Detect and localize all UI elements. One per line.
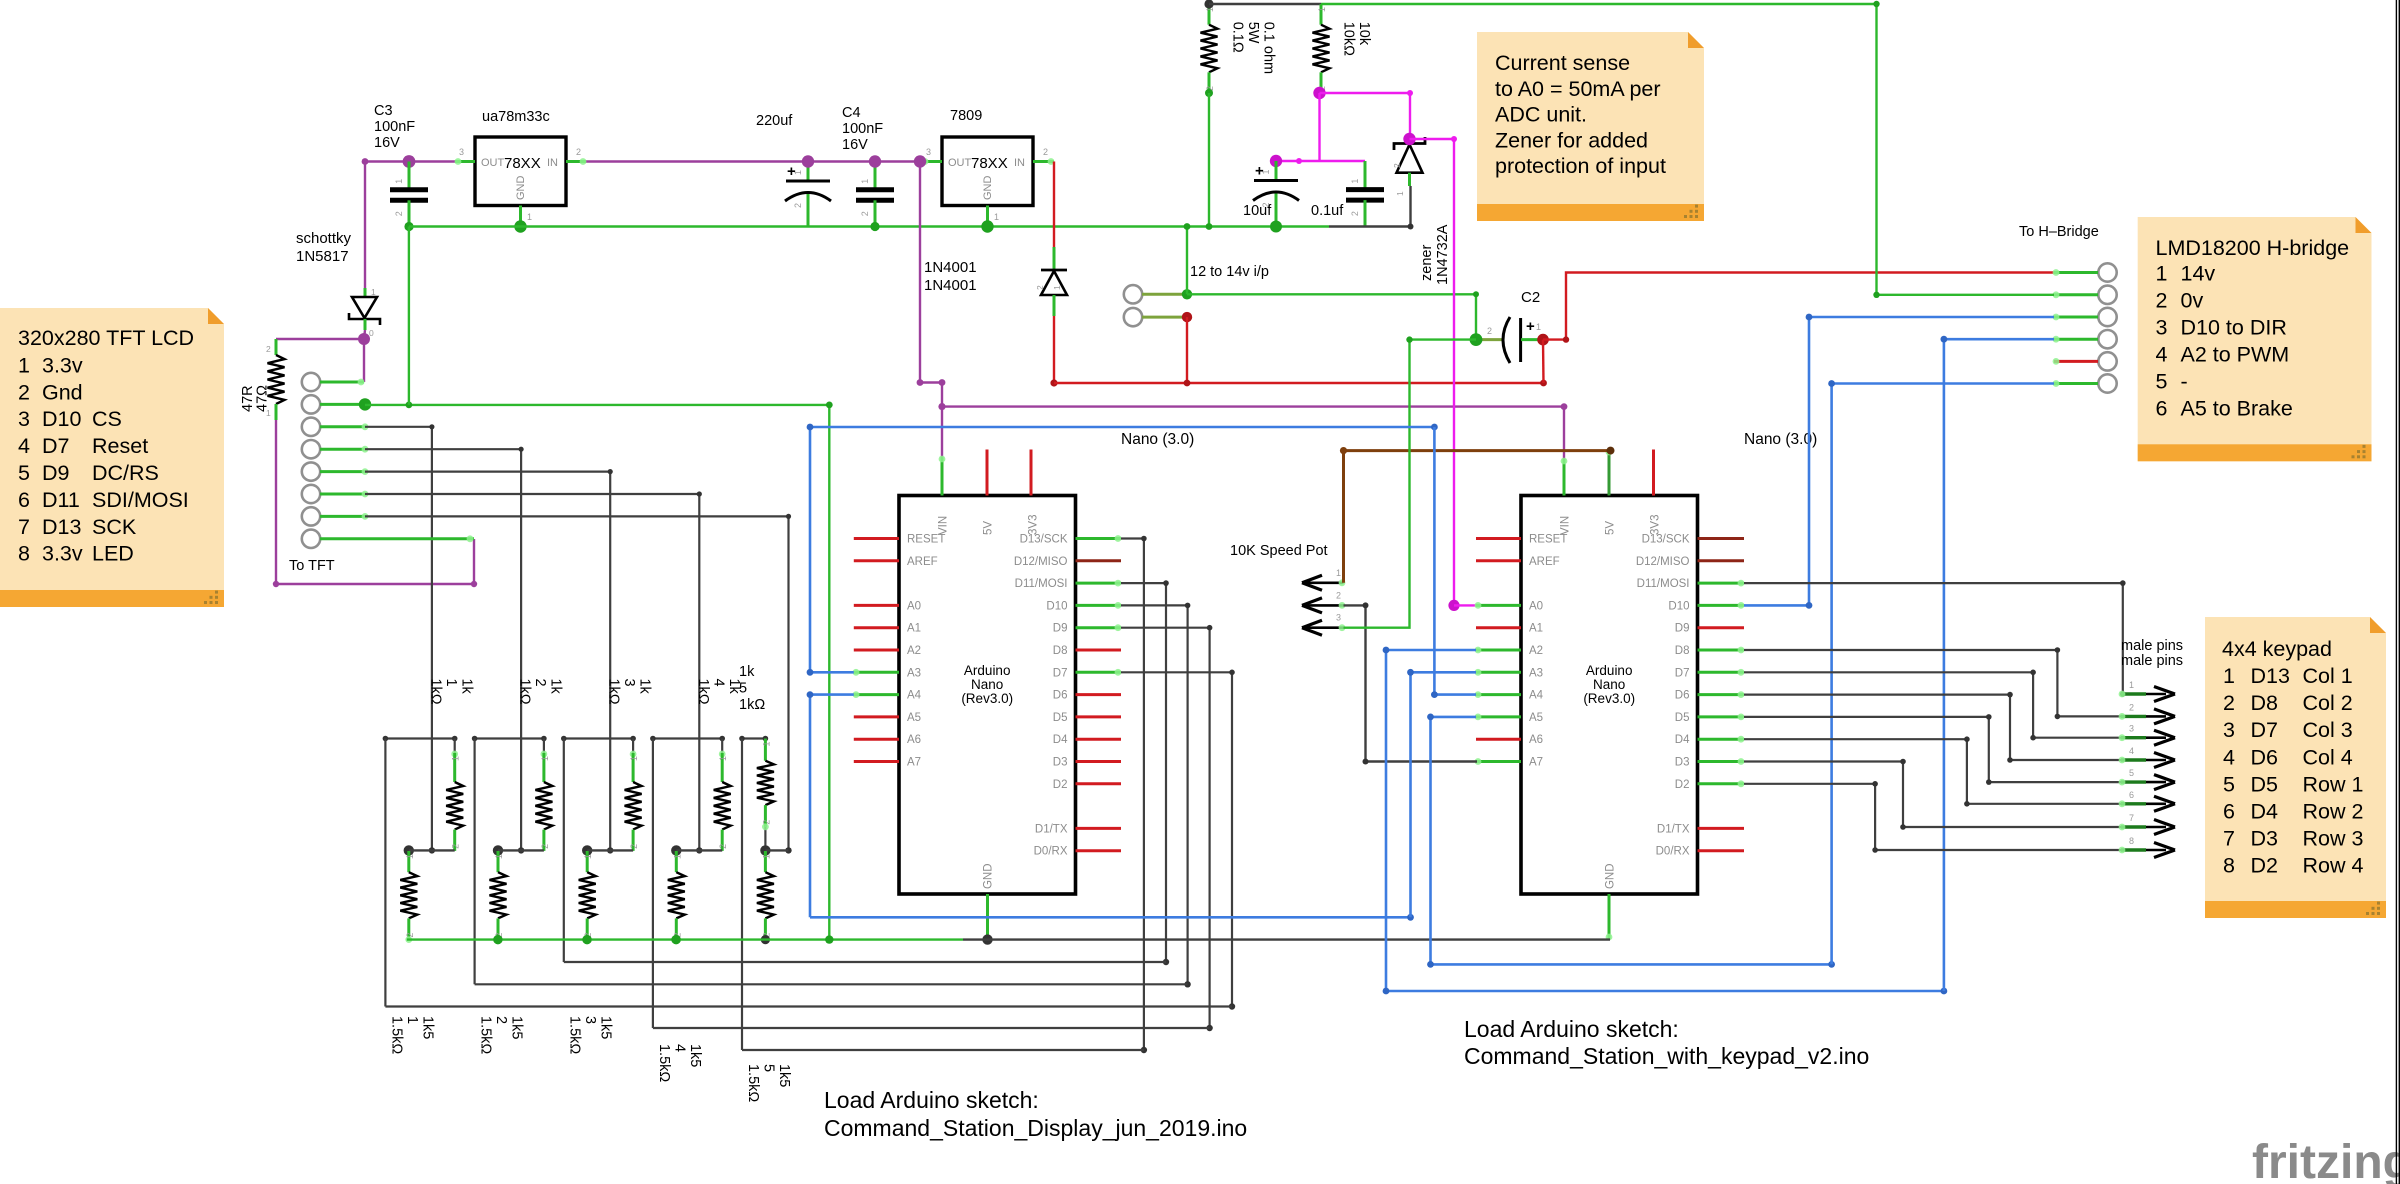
svg-text:3: 3 bbox=[621, 679, 637, 687]
svg-text:A4: A4 bbox=[1529, 690, 1544, 702]
wire nano1 D11 to divider bbox=[1121, 580, 1169, 965]
wire nano1 left stub r9 bbox=[854, 738, 899, 741]
svg-text:D5: D5 bbox=[1053, 712, 1068, 724]
wire green bus drop bbox=[408, 227, 410, 405]
wire magenta caps link bbox=[1276, 158, 1365, 164]
svg-text:D13: D13 bbox=[2251, 664, 2290, 688]
wire red diode to bus bbox=[1050, 316, 1057, 387]
resistor R7 0.1 ohm bbox=[1201, 4, 1218, 93]
svg-text:1: 1 bbox=[1052, 285, 1062, 290]
svg-text:D11: D11 bbox=[42, 488, 80, 512]
label 1k 5 bbox=[739, 664, 765, 713]
wire blue to nano2 A3 bbox=[1407, 669, 1476, 917]
wire divider run 4 bbox=[653, 1027, 1210, 1029]
svg-text:7: 7 bbox=[2223, 827, 2235, 851]
wire TFT pin4 bbox=[320, 446, 524, 854]
svg-text:0.1uf: 0.1uf bbox=[1311, 203, 1344, 219]
svg-text:1: 1 bbox=[793, 170, 803, 175]
svg-text:2: 2 bbox=[860, 211, 870, 216]
svg-text:100nF: 100nF bbox=[374, 119, 415, 135]
svg-text:D10: D10 bbox=[42, 407, 81, 431]
wire divider5 left drop bbox=[741, 739, 743, 1051]
svg-text:5: 5 bbox=[760, 1064, 776, 1072]
resistor R8 10k bbox=[1313, 4, 1330, 93]
svg-text:zener: zener bbox=[1419, 245, 1435, 281]
node gnd bus junction bbox=[671, 935, 680, 944]
keypad male pin 6 bbox=[2119, 790, 2175, 812]
wire divider run 2 bbox=[564, 961, 1166, 963]
svg-text:VIN: VIN bbox=[1560, 516, 1572, 535]
wire blue Hbridge pin6 riser bbox=[1828, 380, 2054, 964]
wire blue nano2 A2 drop bbox=[1383, 647, 1476, 991]
svg-text:1: 1 bbox=[527, 212, 532, 222]
svg-text:OUT: OUT bbox=[481, 157, 505, 169]
wire divider2 left drop bbox=[474, 739, 476, 985]
svg-text:D4: D4 bbox=[1675, 734, 1690, 746]
wire nano2 right stub r9 bbox=[1698, 736, 1745, 743]
svg-text:Command_Station_Display_jun_20: Command_Station_Display_jun_2019.ino bbox=[824, 1115, 1247, 1141]
svg-text:3: 3 bbox=[2156, 315, 2168, 339]
wire TFT pin5 bbox=[320, 468, 613, 853]
svg-text:(Rev3.0): (Rev3.0) bbox=[1583, 691, 1635, 706]
wire nano1 right stub r2 bbox=[1076, 580, 1122, 587]
svg-text:10K Speed Pot: 10K Speed Pot bbox=[1230, 543, 1328, 559]
svg-text:4: 4 bbox=[18, 434, 30, 458]
wire purple VIN drop nano1 bbox=[917, 162, 946, 407]
svg-text:1: 1 bbox=[1317, 7, 1327, 12]
svg-text:1N5817: 1N5817 bbox=[296, 248, 349, 265]
svg-text:-: - bbox=[2181, 369, 2188, 393]
svg-text:1k5: 1k5 bbox=[776, 1064, 792, 1087]
svg-text:D9: D9 bbox=[42, 461, 69, 485]
svg-text:1: 1 bbox=[451, 756, 461, 761]
svg-text:1: 1 bbox=[761, 741, 771, 746]
wire TFT pin6 bbox=[320, 491, 703, 854]
capacitor C6 10uf bbox=[1253, 161, 1299, 227]
svg-text:3: 3 bbox=[2129, 724, 2134, 734]
wire purple 3.3V bus bbox=[586, 160, 920, 162]
svg-text:10uf: 10uf bbox=[1243, 203, 1272, 219]
svg-text:1: 1 bbox=[672, 854, 682, 859]
svg-text:to A0 = 50mA per: to A0 = 50mA per bbox=[1495, 77, 1661, 101]
wire nano1 left stub r1 bbox=[854, 559, 899, 562]
wire nano2 right stub r7 bbox=[1698, 691, 1745, 698]
svg-text:5: 5 bbox=[2223, 772, 2235, 796]
svg-text:Arduino: Arduino bbox=[1586, 663, 1633, 678]
svg-text:1: 1 bbox=[443, 679, 459, 687]
node 220uf top bbox=[802, 155, 814, 167]
svg-text:2: 2 bbox=[2223, 691, 2235, 715]
keypad male pin 3 bbox=[2119, 724, 2175, 746]
wire nano2 5V stub bbox=[1606, 449, 1613, 496]
svg-text:D3: D3 bbox=[1675, 757, 1690, 769]
wire nano2 VIN stub bbox=[1561, 458, 1568, 496]
wire input pin2 bbox=[1142, 316, 1187, 319]
svg-text:5W: 5W bbox=[1245, 22, 1261, 44]
label 47R bbox=[240, 385, 271, 412]
svg-text:fritzing: fritzing bbox=[2252, 1136, 2400, 1184]
wire divider run 3 bbox=[475, 983, 1188, 985]
svg-text:2: 2 bbox=[1392, 163, 1402, 168]
note current sense bbox=[1477, 32, 1704, 221]
wire nano1 right stub r9 bbox=[1076, 738, 1122, 741]
svg-text:protection of input: protection of input bbox=[1495, 154, 1666, 178]
svg-text:Gnd: Gnd bbox=[42, 380, 83, 404]
svg-text:320x280 TFT LCD: 320x280 TFT LCD bbox=[18, 326, 194, 350]
svg-text:1: 1 bbox=[540, 756, 550, 761]
svg-text:A1: A1 bbox=[1529, 623, 1543, 635]
label Nano (3.0) first bbox=[1121, 431, 1194, 448]
label Nano (3.0) second bbox=[1744, 431, 1817, 448]
node C2 neg bbox=[1470, 333, 1483, 346]
label 1k5 5 bbox=[745, 1064, 792, 1102]
wire magenta to A0 stub bbox=[1454, 604, 1477, 606]
svg-text:4: 4 bbox=[671, 1044, 687, 1052]
node nano1 gnd junction bbox=[982, 934, 992, 944]
label 0.1 ohm bbox=[1230, 22, 1277, 74]
wire nano1 left stub r10 bbox=[854, 760, 899, 763]
svg-text:IN: IN bbox=[1014, 157, 1025, 169]
label ua78m33c bbox=[482, 109, 550, 125]
svg-text:1k: 1k bbox=[548, 679, 564, 695]
wire Hbridge stub 1 bbox=[2053, 269, 2098, 276]
wire nano2 right stub r8 bbox=[1698, 714, 1745, 721]
svg-text:Col 3: Col 3 bbox=[2303, 718, 2353, 742]
svg-text:1kΩ: 1kΩ bbox=[427, 679, 443, 705]
label 1k5 3 bbox=[567, 1016, 614, 1054]
svg-text:1: 1 bbox=[404, 1016, 420, 1024]
wire nano2 GND bbox=[1606, 894, 1613, 940]
svg-text:1: 1 bbox=[1336, 568, 1341, 578]
svg-text:5: 5 bbox=[739, 681, 747, 697]
node input pin2 junction bbox=[1182, 312, 1192, 322]
resistor 1k 2 bbox=[535, 753, 552, 851]
svg-text:1: 1 bbox=[2129, 680, 2134, 690]
svg-text:D7: D7 bbox=[1675, 667, 1690, 679]
svg-text:D3: D3 bbox=[2251, 827, 2279, 851]
svg-text:2: 2 bbox=[1487, 326, 1492, 336]
node 10uf top bbox=[1270, 155, 1282, 167]
svg-text:GND: GND bbox=[983, 863, 995, 889]
svg-text:3.3v: 3.3v bbox=[42, 542, 83, 566]
wire divider4 hook bbox=[650, 736, 725, 742]
svg-text:A5 to Brake: A5 to Brake bbox=[2181, 396, 2293, 420]
svg-text:Col 4: Col 4 bbox=[2303, 745, 2353, 769]
svg-text:8: 8 bbox=[2129, 836, 2134, 846]
wire input pin1 bbox=[1142, 293, 1187, 296]
label 1k5 2 bbox=[478, 1016, 525, 1054]
wire blue to nano2 A4 bbox=[1431, 427, 1476, 698]
svg-text:C3: C3 bbox=[374, 103, 393, 119]
label 10K Speed Pot bbox=[1230, 543, 1328, 559]
wire purple nano2 VIN bbox=[1563, 407, 1565, 459]
node U2 out junction bbox=[914, 155, 926, 167]
wire blue nano1 A3 bbox=[807, 427, 854, 676]
capacitor C3 bbox=[390, 162, 428, 227]
svg-text:0.1 ohm: 0.1 ohm bbox=[1261, 22, 1277, 74]
wire green bottom gnd bus bbox=[407, 938, 963, 940]
label 220uf bbox=[756, 113, 793, 129]
wire nano1 D10 to divider bbox=[1121, 603, 1191, 988]
svg-text:D5: D5 bbox=[2251, 772, 2279, 796]
svg-text:1k: 1k bbox=[739, 664, 755, 680]
svg-text:1kΩ: 1kΩ bbox=[739, 697, 765, 713]
label 1k5 1 bbox=[388, 1016, 435, 1054]
svg-text:1: 1 bbox=[761, 854, 771, 859]
svg-text:D6: D6 bbox=[1675, 690, 1690, 702]
wire blue pwm run bbox=[1383, 988, 1948, 995]
svg-text:1: 1 bbox=[494, 854, 504, 859]
wire black zener gnd bbox=[1329, 186, 1414, 230]
svg-text:1k: 1k bbox=[637, 679, 653, 695]
wire nano1 D7 to divider bbox=[1121, 670, 1235, 1010]
svg-text:D1/TX: D1/TX bbox=[1657, 823, 1690, 835]
wire nano2 right stub r5 bbox=[1698, 647, 1745, 654]
wire divider2 1k tail bbox=[541, 739, 548, 758]
svg-text:3: 3 bbox=[2223, 718, 2235, 742]
wire nano1 left stub r5 bbox=[854, 649, 899, 652]
svg-text:CS: CS bbox=[92, 407, 122, 431]
voltage regulator U1 ua78m33c bbox=[455, 137, 587, 227]
svg-text:6: 6 bbox=[2156, 396, 2168, 420]
svg-text:1: 1 bbox=[1350, 179, 1360, 184]
keypad male pin 4 bbox=[2119, 746, 2175, 768]
wire magenta 10k down bbox=[1318, 93, 1320, 161]
svg-text:Load Arduino sketch:: Load Arduino sketch: bbox=[824, 1087, 1039, 1113]
wire blue Hbridge pin4 riser bbox=[1941, 336, 2055, 991]
pot pin 2 arrow bbox=[1302, 590, 1345, 613]
wire purple to schottky bbox=[364, 162, 366, 289]
svg-text:0.1Ω: 0.1Ω bbox=[1230, 22, 1246, 53]
wire purple 47R down bbox=[273, 420, 477, 587]
svg-text:Row 1: Row 1 bbox=[2303, 772, 2364, 796]
svg-text:6: 6 bbox=[2129, 790, 2134, 800]
wire nano2 keypad 8 bbox=[1744, 781, 2121, 853]
label fritzing watermark bbox=[2252, 1136, 2400, 1184]
wire nano1 5V stub bbox=[986, 450, 989, 496]
wire Hbridge stub 5 bbox=[2053, 358, 2098, 365]
svg-text:1: 1 bbox=[1536, 322, 1541, 332]
svg-text:16V: 16V bbox=[374, 135, 400, 151]
svg-text:5: 5 bbox=[2156, 369, 2168, 393]
wire nano2 right stub r2 bbox=[1698, 580, 1745, 587]
svg-text:1N4001: 1N4001 bbox=[924, 259, 977, 276]
label load sketch 2 bbox=[1464, 1016, 1869, 1069]
svg-text:10k: 10k bbox=[1356, 22, 1372, 46]
svg-text:Nano: Nano bbox=[971, 677, 1003, 692]
svg-text:1k5: 1k5 bbox=[509, 1016, 525, 1039]
wire Hbridge stub 4 bbox=[2053, 336, 2098, 343]
capacitor C2 bbox=[1476, 317, 1543, 363]
node purple nano junction bbox=[938, 403, 945, 410]
svg-text:3V3: 3V3 bbox=[1028, 515, 1040, 535]
wire purple node to TFT pin1 bbox=[363, 339, 365, 382]
svg-text:1: 1 bbox=[718, 756, 728, 761]
svg-text:A5: A5 bbox=[1529, 712, 1543, 724]
label male pins bbox=[2121, 638, 2183, 669]
svg-text:AREF: AREF bbox=[907, 556, 938, 568]
svg-text:2: 2 bbox=[2129, 702, 2134, 712]
wire green gnd rail mid bbox=[365, 402, 829, 409]
diode D1 schottky 1N5817 bbox=[349, 287, 380, 338]
svg-text:(Rev3.0): (Rev3.0) bbox=[961, 691, 1013, 706]
wire blue nano2 A5 drop bbox=[1427, 714, 1476, 965]
wire nano2 right stub r11 bbox=[1698, 780, 1745, 787]
wire green mid rail to bottom bus bbox=[826, 402, 833, 940]
wire Hbridge stub 6 bbox=[2053, 380, 2098, 387]
wire divider1 left drop bbox=[384, 739, 386, 1007]
node gnd bus riser junction bbox=[825, 935, 833, 943]
svg-text:D10: D10 bbox=[1668, 600, 1689, 612]
label 1k 2 bbox=[517, 679, 564, 705]
svg-text:D10 to DIR: D10 to DIR bbox=[2181, 315, 2287, 339]
wire TFT pin3 bbox=[320, 423, 435, 853]
wire green input to C2 bbox=[1187, 291, 1479, 339]
node divider4 mid bbox=[671, 845, 681, 855]
node divider3 gnd bbox=[583, 935, 592, 944]
wire divider3 left drop bbox=[563, 739, 565, 963]
svg-text:D12/MISO: D12/MISO bbox=[1014, 556, 1068, 568]
svg-text:7: 7 bbox=[18, 515, 30, 539]
svg-text:A1: A1 bbox=[907, 623, 921, 635]
wire black pot wiper to A7 bbox=[1344, 602, 1478, 764]
label 1k 3 bbox=[606, 679, 653, 705]
svg-text:D2: D2 bbox=[2251, 854, 2278, 878]
svg-text:Current sense: Current sense bbox=[1495, 51, 1630, 75]
svg-text:7809: 7809 bbox=[950, 108, 982, 124]
svg-text:6: 6 bbox=[18, 488, 30, 512]
wire purple nano1 VIN bbox=[941, 407, 943, 457]
svg-text:2: 2 bbox=[793, 203, 803, 208]
svg-text:220uf: 220uf bbox=[756, 113, 793, 129]
keypad male pin 5 bbox=[2119, 768, 2175, 790]
svg-text:2: 2 bbox=[629, 844, 639, 849]
svg-text:10kΩ: 10kΩ bbox=[1341, 22, 1357, 56]
node U1 gnd junction bbox=[514, 220, 526, 232]
wire red C2 drop bbox=[1542, 340, 1545, 383]
svg-text:1: 1 bbox=[1261, 169, 1271, 174]
wire nano2 left stub r7 bbox=[1475, 691, 1521, 698]
svg-text:1: 1 bbox=[994, 212, 999, 222]
node divider1 mid bbox=[404, 845, 414, 855]
wire purple OUT to C3 bbox=[365, 160, 455, 162]
wire TFT pin8 LED bbox=[320, 535, 474, 542]
node 0.1ohm bottom bbox=[1205, 89, 1213, 97]
svg-text:0: 0 bbox=[369, 328, 374, 338]
svg-text:4: 4 bbox=[2223, 745, 2235, 769]
wire divider3 1k tail bbox=[630, 739, 637, 758]
wire divider1 1k tail bbox=[451, 739, 458, 758]
node C3 gnd junction bbox=[404, 222, 413, 231]
label 10uf bbox=[1243, 203, 1272, 219]
node A0 magenta junction bbox=[1448, 600, 1459, 611]
wire nano1 right stub r14 bbox=[1076, 849, 1122, 852]
svg-text:1: 1 bbox=[405, 854, 415, 859]
wire divider3 mid link bbox=[587, 849, 633, 851]
svg-text:D4: D4 bbox=[2251, 800, 2279, 824]
wire nano2 left stub r9 bbox=[1476, 738, 1521, 741]
wire nano2 right stub r10 bbox=[1698, 758, 1745, 765]
svg-text:5: 5 bbox=[2129, 768, 2134, 778]
node divider2 gnd bbox=[493, 935, 502, 944]
svg-text:Col 2: Col 2 bbox=[2303, 691, 2353, 715]
svg-text:D6: D6 bbox=[1053, 690, 1068, 702]
svg-text:+: + bbox=[1526, 318, 1535, 335]
svg-text:Reset: Reset bbox=[92, 434, 148, 458]
wire nano2 right stub r4 bbox=[1698, 626, 1745, 629]
wire Hbridge stub 3 bbox=[2053, 314, 2098, 321]
svg-text:Command_Station_with_keypad_v2: Command_Station_with_keypad_v2.ino bbox=[1464, 1043, 1869, 1069]
svg-text:5V: 5V bbox=[983, 521, 995, 535]
svg-text:D3: D3 bbox=[1053, 757, 1068, 769]
svg-text:5: 5 bbox=[18, 461, 30, 485]
wire nano1 VIN stub bbox=[939, 456, 946, 496]
svg-text:2: 2 bbox=[718, 844, 728, 849]
node schottky junction bbox=[358, 333, 370, 345]
svg-text:4x4 keypad: 4x4 keypad bbox=[2222, 637, 2332, 661]
label 1k 1 bbox=[427, 679, 474, 705]
svg-text:Col 1: Col 1 bbox=[2303, 664, 2353, 688]
svg-text:D8: D8 bbox=[1053, 645, 1068, 657]
svg-text:schottky: schottky bbox=[296, 230, 352, 247]
svg-text:D2: D2 bbox=[1053, 779, 1068, 791]
svg-text:3: 3 bbox=[459, 147, 464, 157]
resistor 1k 5 bbox=[757, 739, 774, 827]
wire nano2 left stub r8 bbox=[1475, 714, 1521, 721]
svg-text:A0: A0 bbox=[907, 600, 921, 612]
wire nano2 right stub r0 bbox=[1698, 537, 1745, 540]
keypad male pin 7 bbox=[2119, 813, 2175, 835]
svg-text:1kΩ: 1kΩ bbox=[695, 679, 711, 705]
wire nano2 keypad 7 bbox=[1744, 759, 2121, 830]
svg-text:8: 8 bbox=[18, 542, 30, 566]
svg-text:1: 1 bbox=[2223, 664, 2235, 688]
svg-text:Arduino: Arduino bbox=[964, 663, 1011, 678]
wire divider1 hook bbox=[383, 736, 458, 742]
svg-text:D4: D4 bbox=[1053, 734, 1068, 746]
node divider5 gnd bbox=[761, 935, 770, 944]
svg-text:100nF: 100nF bbox=[842, 121, 883, 137]
svg-text:1N4732A: 1N4732A bbox=[1435, 224, 1451, 285]
diode D2 1N4001 bbox=[1035, 162, 1067, 317]
svg-text:2: 2 bbox=[18, 380, 30, 404]
node divider5 mid bbox=[760, 845, 770, 855]
svg-text:C2: C2 bbox=[1521, 289, 1540, 306]
svg-text:6: 6 bbox=[2223, 800, 2235, 824]
wire red C2 to Hbridge bbox=[1543, 273, 2054, 343]
wire nano1 right stub r11 bbox=[1076, 782, 1122, 785]
svg-text:Nano (3.0): Nano (3.0) bbox=[1744, 431, 1817, 448]
svg-text:male pins: male pins bbox=[2121, 638, 2183, 654]
wire nano1 left stub r4 bbox=[854, 626, 899, 629]
label 12 to 14v bbox=[1190, 264, 1269, 280]
node C2 pos bbox=[1537, 334, 1549, 346]
wire divider5 mid link bbox=[765, 849, 788, 851]
svg-text:78XX: 78XX bbox=[971, 155, 1008, 172]
capacitor C7 0.1uf bbox=[1346, 161, 1384, 227]
keypad male pin 2 bbox=[2119, 702, 2175, 724]
wire nano2 right stub r1 bbox=[1698, 559, 1745, 562]
svg-text:2: 2 bbox=[451, 844, 461, 849]
diode D3 zener 1N4732A bbox=[1392, 137, 1425, 196]
node divider2 mid bbox=[493, 845, 503, 855]
wire nano1 right stub r0 bbox=[1076, 535, 1122, 542]
svg-text:1.5kΩ: 1.5kΩ bbox=[656, 1044, 672, 1082]
label C2 bbox=[1521, 289, 1540, 306]
node C4 top bbox=[869, 155, 881, 167]
svg-text:VIN: VIN bbox=[938, 516, 950, 535]
label C4 value bbox=[842, 105, 883, 153]
